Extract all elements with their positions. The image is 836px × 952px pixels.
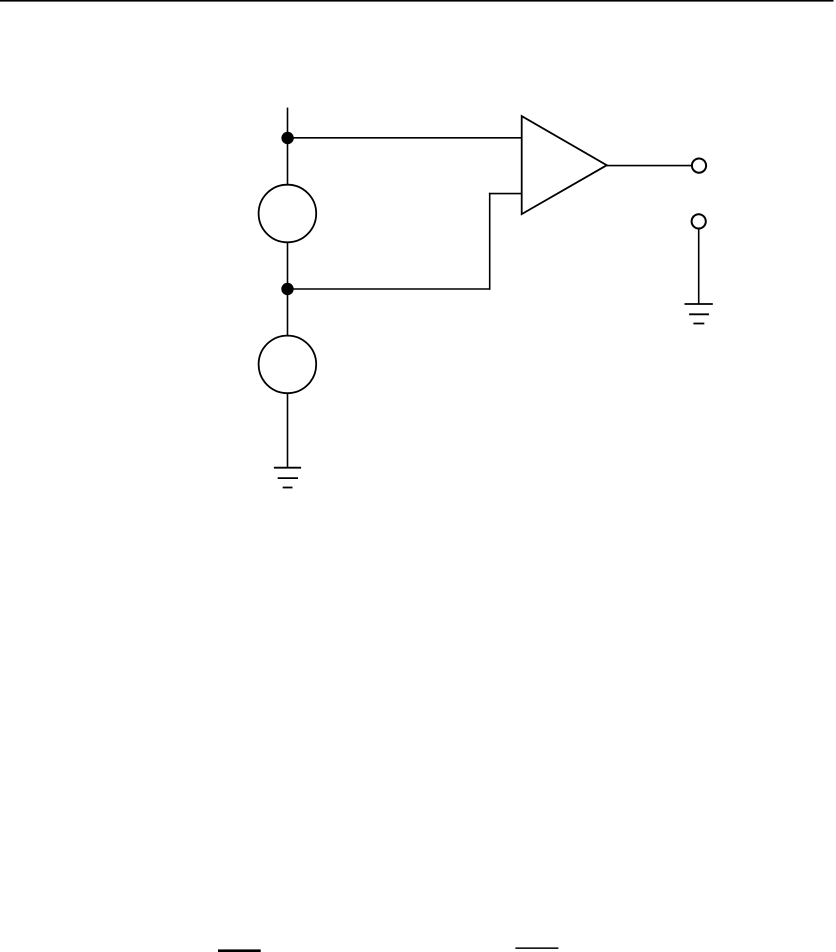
wire (source V2 bottom to ground) bbox=[287, 393, 289, 468]
wire (op-amp output) bbox=[607, 165, 692, 167]
op-amp U1 (triangle) bbox=[522, 116, 607, 214]
source V1 (circle symbol) bbox=[259, 185, 317, 243]
page top rule bbox=[0, 0, 834, 2]
wire (source V1 bottom to node B) bbox=[287, 242, 289, 289]
fraction bar fragment (bottom right, clipped) bbox=[515, 947, 558, 949]
output terminal (open circle) bbox=[692, 159, 706, 173]
wire (node A to op-amp noninverting input) bbox=[288, 137, 522, 139]
node B junction dot bbox=[281, 283, 293, 295]
node A junction dot bbox=[281, 132, 293, 144]
return terminal (open circle) bbox=[692, 214, 706, 228]
wire (riser to op-amp inverting input) bbox=[489, 193, 522, 195]
wire (node A to source V1 top) bbox=[287, 138, 289, 185]
wire (stub above node A) bbox=[287, 108, 289, 138]
ground (left) bbox=[274, 468, 301, 488]
wire (return terminal to ground) bbox=[698, 229, 700, 305]
wire (vertical riser to inverting input) bbox=[489, 193, 491, 290]
ground (right) bbox=[685, 304, 713, 324]
wire (node B horizontal run) bbox=[288, 288, 490, 290]
source V2 (circle symbol) bbox=[259, 336, 317, 394]
wire (node B to source V2 top) bbox=[287, 289, 289, 336]
fraction bar fragment (bottom left, clipped) bbox=[218, 949, 261, 952]
